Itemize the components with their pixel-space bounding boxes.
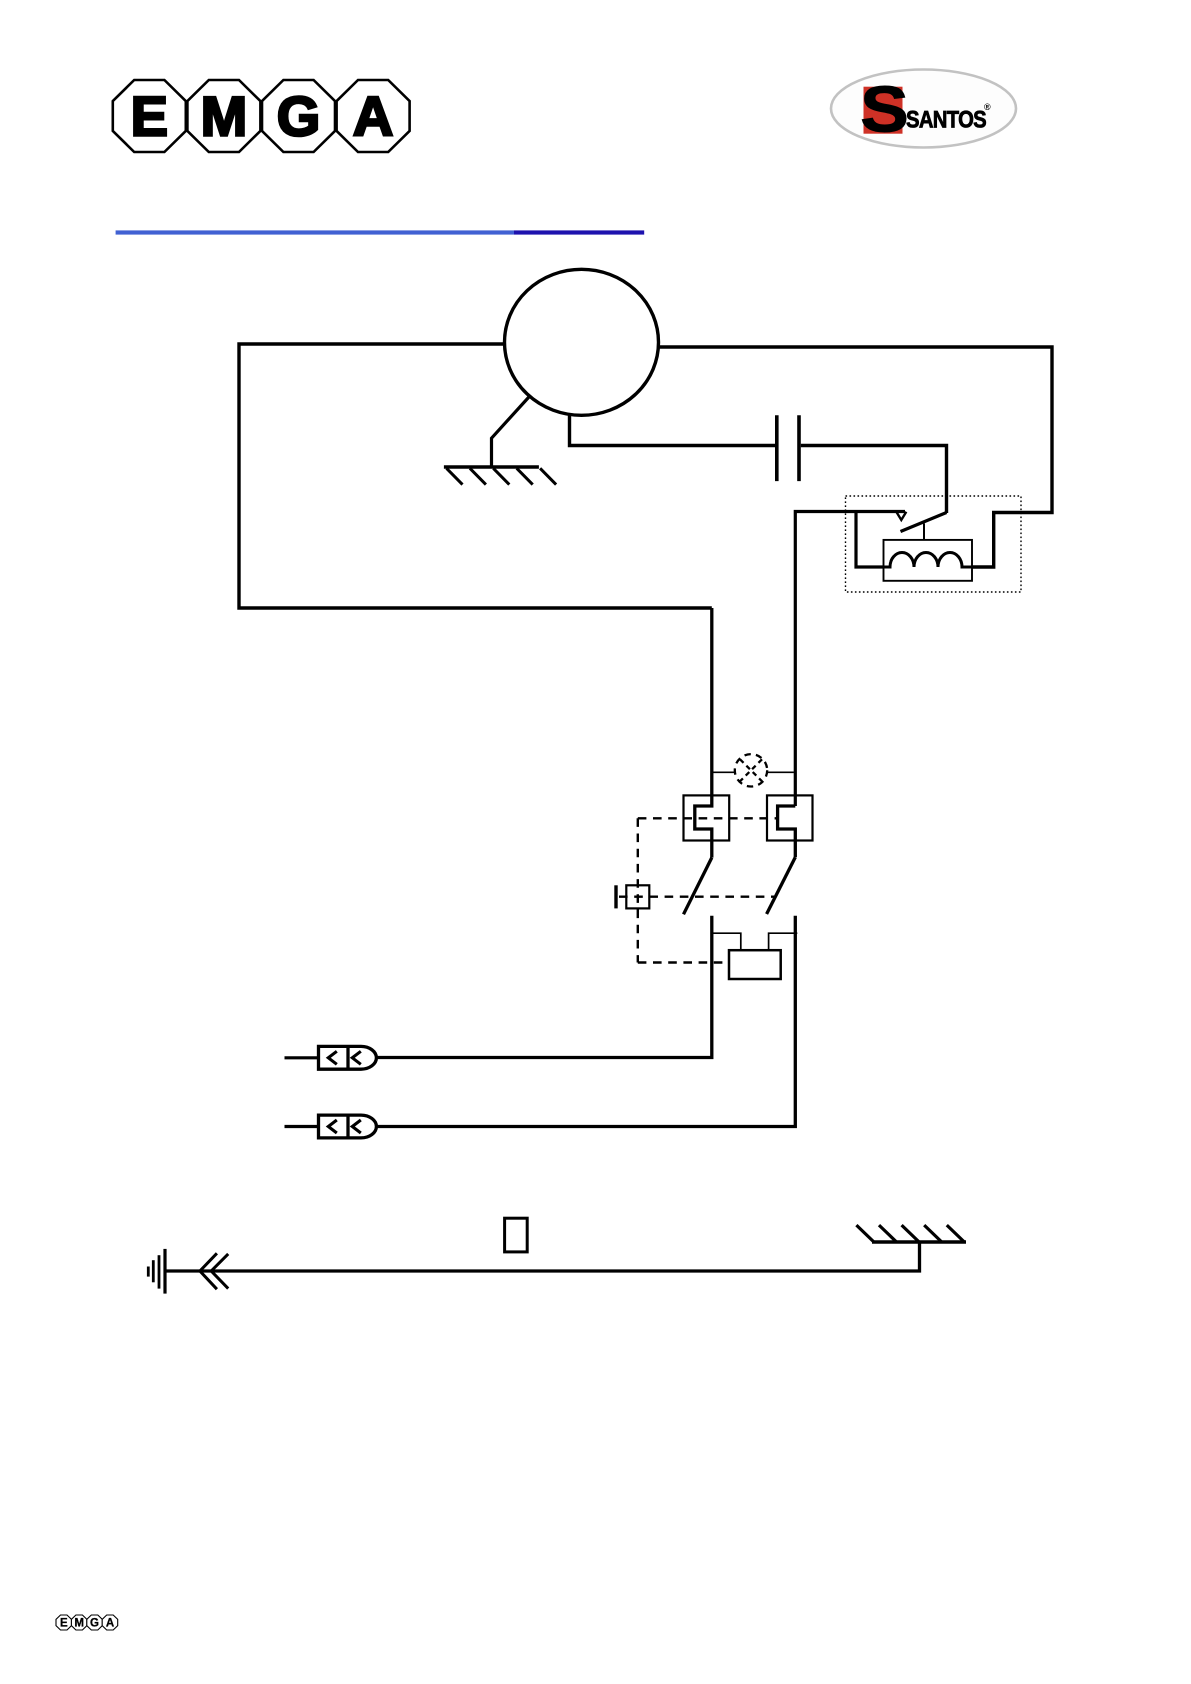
footer EMGA octagon G [87,1615,103,1630]
push button actuator bar [614,885,617,908]
wire feed to switch pole 2 [795,512,905,807]
connector J1 stub wire [285,1056,319,1059]
switch pole 1 upper contact jog [695,608,712,858]
SANTOS logo wordmark [906,102,991,134]
switch housing pole 1 [684,795,730,840]
capacitor C1 [777,415,799,481]
title rule left segment [116,230,514,234]
svg-text:A: A [106,1618,114,1630]
wire motor T1 left loop to switch pole 1 [239,344,712,608]
svg-text:G: G [90,1618,99,1630]
wire pole 2 lower to connector J2 [376,916,795,1127]
earth wire double chevron [200,1253,228,1289]
earth bonding wire [165,1242,920,1271]
thermal contact arrowhead [896,512,906,520]
push button body [626,885,649,908]
mechanical link lower dashed [638,961,729,963]
SANTOS logo oval [831,70,1016,148]
thermal protector dotted enclosure [846,496,1022,592]
footer EMGA octagon M [71,1615,87,1630]
blade to heater tick [923,524,925,540]
svg-text:M: M [201,85,248,148]
thermal switch blade [901,513,947,532]
switch pole 1 blade [684,858,712,915]
wire drop to heater left [856,512,884,568]
wire capacitor to thermal switch [801,446,947,514]
SANTOS logo red square [864,87,903,134]
indicator lamp wire left [713,771,735,773]
ground symbol (motor) [444,467,556,485]
svg-text:G: G [277,85,321,148]
EMGA logo octagon M [187,80,260,152]
wire pole 1 lower to connector J1 [376,916,711,1058]
svg-text:®: ® [984,102,991,112]
footer EMGA octagon E [56,1615,72,1630]
wire motor T2 to capacitor [570,416,776,446]
svg-text:M: M [74,1618,84,1630]
SANTOS logo S glyph [860,73,909,146]
EMGA logo octagon G [262,80,335,152]
chassis ground symbol [856,1225,966,1242]
switch pole 2 blade [767,857,796,914]
svg-text:SANTOS: SANTOS [906,107,987,134]
motor M1 [505,269,659,415]
relay coil wire left [712,933,741,950]
unknown glyph box [505,1218,528,1252]
relay coil K1 [729,950,781,979]
svg-text:S: S [860,73,909,146]
supply earth terminal bars [148,1249,165,1294]
mechanical link vertical dashed [637,818,639,962]
heater element coil [884,553,973,568]
svg-text:E: E [131,85,168,148]
EMGA logo octagon A [337,80,410,152]
motor ground lead [492,397,529,467]
EMGA logo octagon E [113,80,186,152]
connector J2 [319,1115,377,1138]
relay coil wire right [769,933,798,950]
heater box [884,540,973,581]
svg-text:A: A [353,85,393,148]
mechanical link upper dashed [638,817,778,819]
wire motor T3 top to thermal protector right side [659,347,1052,567]
indicator lamp wire right [767,771,794,773]
connector J2 stub wire [285,1125,319,1128]
switch pole 2 upper contact jog [778,806,796,857]
svg-text:E: E [60,1618,68,1630]
mechanical link middle dashed (button) [619,896,774,898]
indicator lamp [735,754,767,786]
switch housing pole 2 [767,795,813,840]
connector J1 [319,1046,377,1069]
title rule right segment [514,230,644,234]
footer EMGA octagon A [102,1615,118,1630]
